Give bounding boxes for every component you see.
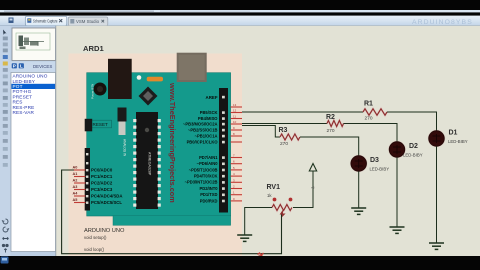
svg-text:ARDUINO8YBS: ARDUINO8YBS [412,19,473,26]
ground for RV1 [237,235,252,241]
svg-text:~PB1/OC1A: ~PB1/OC1A [195,133,218,138]
resistor R3 [280,134,300,140]
led D2 [388,141,405,158]
svg-text:Schematic Capture: Schematic Capture [33,19,58,24]
ground for D2 [390,227,405,233]
svg-text:270: 270 [280,141,288,147]
svg-text:~PB3/MOSI/OC2A: ~PB3/MOSI/OC2A [183,121,218,126]
panel background [11,26,56,256]
wire pin13 to R1 [242,111,363,113]
svg-text:RV1: RV1 [267,184,281,191]
svg-text:PD7/AIN1: PD7/AIN1 [199,155,218,160]
resistor R2 [327,121,344,127]
svg-text:AREF: AREF [206,95,218,100]
ARD1 right pin numbers [233,103,237,201]
svg-text:LED-BIBY: LED-BIBY [448,139,468,144]
svg-text:A1: A1 [73,172,78,176]
ground for D1 [429,243,444,249]
ARD1 PD pin labels [185,155,219,203]
ARD1 16U2 chip (diamond) [139,87,158,106]
svg-text:R2: R2 [326,114,335,121]
component ARD1 Arduino UNO: background box [69,54,243,257]
svg-text:LED-BIBY: LED-BIBY [370,167,390,172]
led D1 [428,130,445,147]
bottom black bar [0,256,480,270]
svg-text:ANALOG IN: ANALOG IN [123,139,127,157]
svg-text:VSM Studio: VSM Studio [76,19,100,24]
wire R2 to D2 corner [344,124,398,142]
svg-text:+5: +5 [311,186,315,190]
wire pin11 to R3 with jog [242,126,280,138]
P L DEVICES header [11,62,56,73]
svg-text:PC1/ADC1: PC1/ADC1 [91,174,113,179]
wire RV1 left to ground [245,208,272,236]
ARD1 analog pin stubs A0-A5 [74,170,86,203]
wire D1 to ground [436,146,438,243]
ARD1 DC barrel jack [94,59,132,99]
svg-text:270: 270 [327,128,335,134]
svg-text:A0: A0 [73,166,78,170]
device list [11,73,56,252]
potentiometer RV1 [272,198,292,216]
wire R3 to D3 corner [300,137,359,156]
svg-text:PC5/ADC5/SCL: PC5/ADC5/SCL [91,200,122,205]
svg-text:13: 13 [233,103,237,107]
resistor R1 [363,109,387,115]
svg-text:PC3/ADC3: PC3/ADC3 [91,187,113,192]
ARD1 board body [87,73,231,226]
junction marker red blob [258,253,264,256]
svg-text:11: 11 [233,115,236,119]
left toolbar [0,26,11,256]
svg-text:D3: D3 [370,157,379,164]
svg-text:PC0/ADC0: PC0/ADC0 [91,167,113,172]
ARD1 left edge connector [85,119,93,132]
svg-text:PB5/SCK: PB5/SCK [200,110,218,115]
svg-text:12: 12 [233,109,237,113]
ARD1 left pin header [85,148,90,211]
svg-text:270: 270 [365,116,373,122]
svg-text:~PD6/AIN0: ~PD6/AIN0 [197,161,219,166]
ARD1 right pin stubs [231,107,242,201]
ARD1 RESET label [91,120,112,128]
svg-text:Power BTN: Power BTN [91,84,95,99]
wire D3 to ground [358,171,360,208]
svg-text:~PD5/T1/OC0B: ~PD5/T1/OC0B [189,167,218,172]
svg-text:DEVICES: DEVICES [33,64,52,69]
ARD1 right pin header [219,88,228,213]
title bar sliver [0,10,480,12]
power terminal +5V arrow [309,164,316,190]
svg-text:ARD1: ARD1 [83,44,104,53]
svg-text:RESET: RESET [93,122,109,127]
svg-text:10: 10 [233,120,237,124]
svg-text:A5: A5 [73,198,78,202]
ARD1 USB connector [177,53,207,82]
wire A0 to RV1 wiper (left, down, bottom run) [62,170,282,254]
svg-text:ARDUINO UNO: ARDUINO UNO [84,228,125,234]
svg-text:PC2/ADC2: PC2/ADC2 [91,180,113,185]
svg-text:LED-BIBY: LED-BIBY [403,153,423,158]
ARD1 ON led [137,75,163,81]
ground for D3 [351,208,366,214]
svg-text:D1: D1 [449,130,458,137]
svg-text:L: L [20,64,23,69]
wire pin12 to R2 [242,123,327,125]
ARD1 ATMEGA328P chip [133,112,161,209]
svg-text:PB4/MISO: PB4/MISO [198,116,218,121]
svg-text:void loop(): void loop() [84,247,105,252]
svg-text:R1: R1 [364,101,373,108]
svg-text:PD2/INT0: PD2/INT0 [200,186,219,191]
wire R1 to D1 corner [387,112,437,131]
svg-text:PD4/T0/XCK: PD4/T0/XCK [194,174,218,179]
ARD1 analog pin labels [73,166,79,203]
svg-text:www.TheEngineeringProjects.com: www.TheEngineeringProjects.com [168,82,177,203]
svg-text:ATMEGA328P: ATMEGA328P [148,152,152,176]
toolbar icons [3,30,8,167]
svg-text:PD0/RXD: PD0/RXD [200,198,218,203]
svg-text:R3: R3 [279,127,288,134]
svg-text:void setup(): void setup() [84,235,107,240]
svg-text:PC4/ADC4/SDA: PC4/ADC4/SDA [91,193,123,198]
svg-text:A2: A2 [73,179,78,183]
svg-text:~PD3/INT1/OC2B: ~PD3/INT1/OC2B [185,180,218,185]
ARD1 PB pin labels [183,110,218,145]
svg-text:D2: D2 [409,143,418,150]
led D3 [350,155,367,172]
wire RV1 right to power [293,171,313,208]
svg-text:PD1/TXD: PD1/TXD [200,192,217,197]
ARD1 PC pin labels [91,167,123,205]
schematic background [56,26,480,256]
svg-text:RES-VAR: RES-VAR [13,110,35,115]
wire D2 to ground [396,157,398,227]
svg-text:A3: A3 [73,185,78,189]
svg-text:~PB2/SS/OC1B: ~PB2/SS/OC1B [188,127,218,132]
ARD1 crystal [118,108,127,136]
overview window [12,28,56,61]
svg-text:P: P [13,64,16,69]
svg-text:PB0/ICP1/CLKO: PB0/ICP1/CLKO [187,139,219,144]
